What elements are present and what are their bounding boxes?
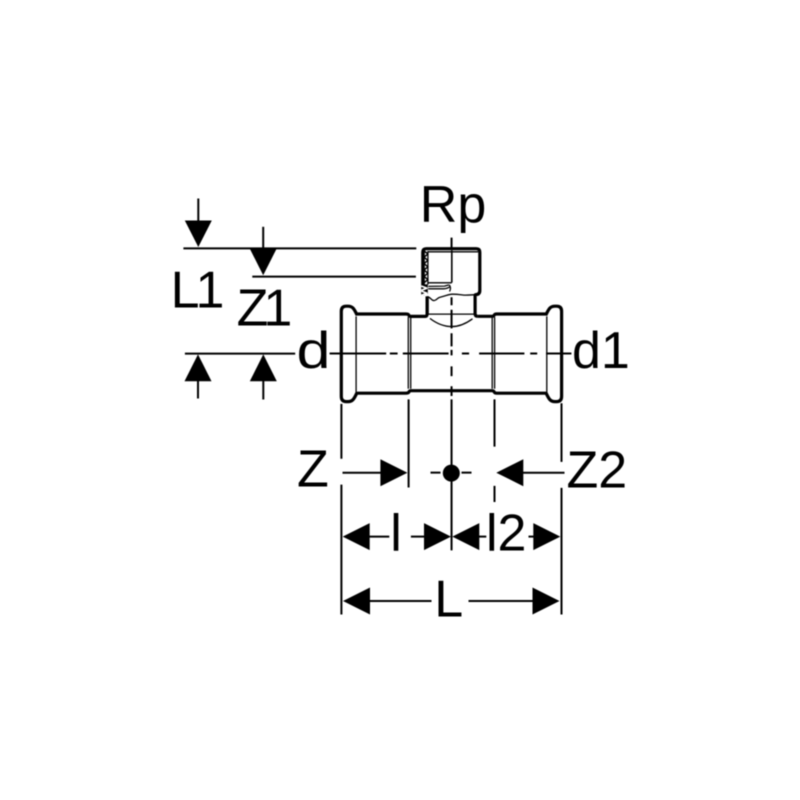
dimension ref line top (L1 level)	[183, 247, 416, 249]
Z1 lower arrow	[250, 354, 277, 381]
l2 left arrow	[452, 523, 479, 550]
svg-text:Rp: Rp	[420, 176, 486, 234]
svg-text:Z: Z	[297, 441, 329, 499]
svg-text:l: l	[390, 505, 402, 563]
thread band edge lines	[424, 251, 428, 285]
boss inner top line	[428, 251, 478, 253]
Z1 lower leader	[262, 381, 264, 400]
svg-text:d: d	[297, 322, 331, 380]
right press socket outline top	[478, 314, 547, 316]
thread end chamfer lines	[428, 285, 449, 289]
Z2 dimension line	[523, 472, 565, 474]
l right arrow	[424, 523, 451, 550]
extension line right socket plane	[494, 399, 496, 502]
right press end bead cap	[546, 306, 562, 401]
extension line right end	[561, 403, 563, 614]
l left arrow	[343, 523, 370, 550]
horizontal centerline	[330, 353, 572, 355]
l2 dimension line right stub	[529, 536, 535, 538]
center dot ticks	[431, 472, 472, 474]
thread bore line	[451, 250, 453, 282]
thread teeth white notches	[421, 286, 427, 295]
left press end bead cap	[341, 306, 357, 401]
Z arrow	[380, 459, 407, 486]
Z1 upper leader	[262, 227, 264, 250]
branch opening line	[428, 313, 475, 315]
l dimension line right stub	[411, 536, 425, 538]
threaded boss outline with neck right edge	[423, 249, 480, 317]
svg-text:d1: d1	[572, 322, 630, 380]
vertical centerline	[451, 238, 453, 551]
right socket stop lines	[492, 317, 494, 389]
svg-text:L1: L1	[171, 262, 223, 320]
L1 lower leader	[197, 381, 199, 399]
extension line left socket plane	[408, 399, 410, 487]
crotch arc	[430, 318, 473, 326]
bore bottom line	[428, 282, 452, 284]
body bottom outline	[357, 391, 546, 394]
center dot	[443, 465, 460, 482]
L dimension line left	[370, 600, 432, 602]
section break hook	[449, 285, 450, 292]
extension line left end	[340, 404, 342, 615]
thread zigzag hatch	[424, 251, 428, 283]
branch neck left edge	[426, 296, 429, 314]
l dimension line left stub	[369, 536, 389, 538]
L left arrow	[343, 588, 370, 615]
L1 lower arrow	[185, 354, 212, 381]
svg-text:Z2: Z2	[567, 442, 628, 500]
dimension ref line Z1 level	[252, 276, 416, 278]
dimension ref line centerline level left	[185, 353, 295, 355]
svg-text:l2: l2	[486, 505, 526, 563]
right bead inner line	[546, 316, 548, 392]
L1 upper leader	[197, 199, 199, 223]
thread band bottom teeth	[422, 284, 428, 294]
svg-text:L: L	[434, 570, 463, 628]
left bead inner line	[355, 316, 357, 392]
L dimension line right	[469, 600, 534, 602]
L1 upper arrow	[185, 221, 212, 248]
svg-text:Z1: Z1	[237, 280, 291, 338]
Z dimension line	[343, 472, 382, 474]
l2 right arrow	[533, 523, 560, 550]
Z2 arrow	[496, 459, 523, 486]
wavy section break line	[427, 294, 475, 300]
L right arrow	[533, 588, 560, 615]
left press socket outline top	[357, 296, 427, 316]
Z1 upper arrow	[250, 249, 277, 276]
l2 dimension line left stub	[479, 536, 486, 538]
left socket stop lines	[408, 317, 410, 389]
